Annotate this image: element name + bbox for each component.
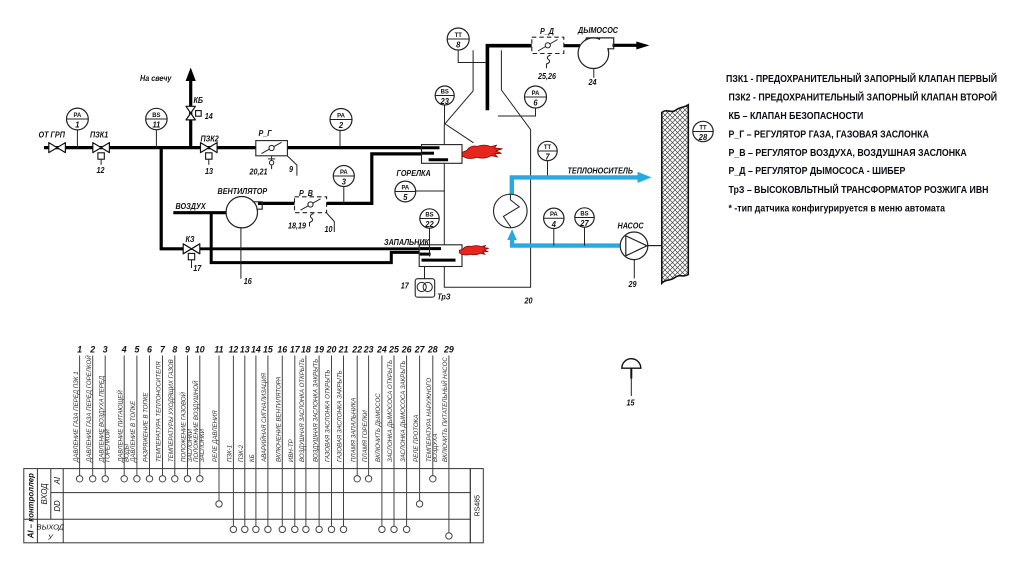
gauge BS22 — [420, 209, 439, 229]
svg-text:AI: AI — [53, 476, 62, 485]
label ПЗК1 — [90, 130, 108, 139]
heat carrier return pipe (cyan) — [507, 229, 619, 245]
signal 12 wire and terminal — [227, 345, 239, 533]
svg-text:ТрЗ – ВЫСОКОВЛЬТНЫЙ ТРАНСФОРМА: ТрЗ – ВЫСОКОВЛЬТНЫЙ ТРАНСФОРМАТОР РОЗЖИГ… — [729, 183, 989, 195]
signal 9 wire and terminal — [180, 345, 194, 482]
svg-text:15: 15 — [627, 398, 636, 407]
svg-text:ТТ: ТТ — [455, 32, 462, 39]
svg-text:РАЗРЯЖЕНИЕ В ТОПКЕ: РАЗРЯЖЕНИЕ В ТОПКЕ — [143, 391, 150, 462]
wire igniter gas line from KZ valve to igniter — [200, 247, 441, 250]
svg-text:ДАВЛЕНИЕ ГАЗА ПЕРЕД ГОРЕЛКОЙ: ДАВЛЕНИЕ ГАЗА ПЕРЕД ГОРЕЛКОЙ — [85, 355, 93, 463]
exhauster fan symbol — [578, 38, 614, 69]
wire fan outlet to air damper — [258, 202, 295, 205]
signal 3 wire and terminal — [98, 345, 111, 482]
svg-text:ВКЛЮЧЕНИЕ ВЕНТИЛЯТОРА: ВКЛЮЧЕНИЕ ВЕНТИЛЯТОРА — [276, 377, 283, 462]
svg-text:На свечу: На свечу — [140, 74, 172, 83]
node 18,19 label — [288, 221, 307, 230]
svg-text:ВОЗДУХА: ВОЗДУХА — [432, 433, 439, 462]
exhaust arrow — [636, 42, 649, 50]
svg-text:25: 25 — [388, 345, 399, 355]
svg-text:* -тип датчика конфигурируется: * -тип датчика конфигурируется в меню ав… — [729, 202, 946, 214]
svg-text:10: 10 — [195, 345, 205, 355]
signal 20 wire and terminal — [325, 345, 337, 533]
node 29 label — [628, 280, 638, 289]
svg-text:ТТ: ТТ — [544, 144, 551, 151]
label НАСОС — [618, 221, 645, 230]
svg-text:13: 13 — [205, 167, 214, 176]
flare arrow tip — [186, 68, 196, 82]
signal 6 wire and terminal — [143, 345, 153, 482]
svg-text:4: 4 — [121, 345, 127, 355]
svg-text:11: 11 — [152, 120, 160, 129]
gauge РА3 — [333, 166, 354, 187]
signal 26 wire and terminal — [400, 345, 412, 533]
burner flame — [462, 145, 502, 158]
svg-text:ПЗК1 - ПРЕДОХРАНИТЕЛЬНЫЙ ЗАПОР: ПЗК1 - ПРЕДОХРАНИТЕЛЬНЫЙ ЗАПОРНЫЙ КЛАПАН… — [726, 72, 997, 84]
leader to 9 — [288, 156, 297, 176]
node 20,21 label — [249, 167, 268, 176]
label Р_Д — [540, 27, 554, 36]
svg-text:27: 27 — [579, 219, 589, 228]
label КБ — [194, 96, 204, 105]
svg-text:ВОЗДУШНАЯ ЗАСЛОНКА ЗАКРЫТЬ: ВОЗДУШНАЯ ЗАСЛОНКА ЗАКРЫТЬ — [312, 359, 319, 462]
node 10 label — [325, 225, 334, 234]
label ВЕНТИЛЯТОР — [218, 187, 269, 196]
label ВОЗДУХ — [176, 202, 207, 211]
svg-text:РА: РА — [340, 169, 348, 176]
controller table frame — [24, 469, 471, 543]
svg-text:11: 11 — [214, 345, 223, 355]
svg-text:РА: РА — [532, 90, 540, 97]
gauge ТТ8 — [447, 28, 469, 50]
svg-text:НАСОС: НАСОС — [618, 221, 645, 230]
svg-text:AI – контроллер: AI – контроллер — [27, 473, 36, 539]
svg-text:РЕЛЕ ДАВЛЕНИЯ: РЕЛЕ ДАВЛЕНИЯ — [212, 410, 219, 462]
svg-text:ВОЗДУШНАЯ ЗАСЛОНКА ОТКРЫТЬ: ВОЗДУШНАЯ ЗАСЛОНКА ОТКРЫТЬ — [299, 358, 306, 462]
alarm bell (15) — [622, 359, 641, 396]
signal 13 wire and terminal — [238, 345, 250, 533]
wire ПЗК1 stem — [100, 159, 102, 165]
svg-text:ТЕПЛОНОСИТЕЛЬ: ТЕПЛОНОСИТЕЛЬ — [568, 166, 634, 175]
svg-text:РА: РА — [74, 112, 82, 119]
svg-text:ПЛАМЯ ГОРЕЛКИ: ПЛАМЯ ГОРЕЛКИ — [362, 410, 369, 462]
label ТрЗ — [437, 292, 450, 301]
label ОТ ГРП — [39, 130, 66, 139]
svg-text:ИВН-ТР: ИВН-ТР — [288, 438, 295, 462]
wire gas branch down to igniter valve — [161, 148, 183, 249]
signal 5 wire and terminal — [130, 345, 140, 482]
svg-text:ПЗК2: ПЗК2 — [201, 134, 220, 143]
svg-text:13: 13 — [240, 345, 250, 355]
label Р_В — [299, 189, 313, 198]
svg-text:ВХОД: ВХОД — [40, 483, 49, 505]
wire РА6 stem — [498, 108, 536, 116]
svg-text:ДАВЛЕНИЕ ГАЗА ПЕРЕД ПЗК 1: ДАВЛЕНИЕ ГАЗА ПЕРЕД ПЗК 1 — [73, 371, 80, 463]
svg-text:2: 2 — [338, 121, 344, 130]
signal 18 wire and terminal — [299, 345, 311, 533]
wire exhauster outlet — [609, 44, 637, 47]
node 17 label (TrZ) — [401, 281, 410, 290]
svg-text:9: 9 — [185, 345, 190, 355]
svg-text:20,21: 20,21 — [249, 167, 268, 176]
svg-text:ПЗК1: ПЗК1 — [90, 130, 108, 139]
signal 21 wire and terminal — [337, 345, 349, 533]
svg-text:ГОРЕЛКА: ГОРЕЛКА — [397, 169, 431, 178]
node 17 label (KZ) — [193, 264, 202, 273]
signal 7 wire and terminal — [156, 345, 166, 482]
svg-text:8: 8 — [456, 40, 461, 49]
svg-text:28: 28 — [427, 345, 438, 355]
svg-text:ДАВЛЕНИЕ В ТОПКЕ: ДАВЛЕНИЕ В ТОПКЕ — [130, 400, 137, 463]
svg-text:ВКЛЮЧИТЬ ДЫМОСОС: ВКЛЮЧИТЬ ДЫМОСОС — [375, 393, 382, 462]
pump НАСОС symbol — [620, 232, 648, 260]
svg-text:КБ – КЛАПАН БЕЗОПАСНОСТИ: КБ – КЛАПАН БЕЗОПАСНОСТИ — [729, 109, 864, 121]
wire TT8 stem — [458, 50, 486, 63]
svg-text:ГАЗОВАЯ ЗАСЛОНКА ЗАКРЫТЬ: ГАЗОВАЯ ЗАСЛОНКА ЗАКРЫТЬ — [337, 370, 344, 462]
table header DD row — [53, 500, 62, 512]
node 12 label — [97, 166, 106, 175]
svg-text:27: 27 — [414, 345, 426, 355]
svg-text:ВЫХОД: ВЫХОД — [37, 523, 65, 532]
svg-text:ЗАСЛОНКА ДЫМОСОСА ЗАКРЫТЬ: ЗАСЛОНКА ДЫМОСОСА ЗАКРЫТЬ — [400, 361, 407, 462]
wire air inlet to fan — [173, 211, 232, 214]
label ТЕПЛОНОСИТЕЛЬ — [568, 166, 634, 175]
transformer ТрЗ — [415, 267, 435, 297]
regulator Р_Г box with damper — [256, 141, 288, 156]
svg-text:ТТ: ТТ — [699, 124, 706, 131]
svg-text:1: 1 — [77, 345, 82, 355]
svg-text:4: 4 — [551, 220, 557, 229]
svg-text:ОТ ГРП: ОТ ГРП — [39, 130, 66, 139]
node 9 label — [289, 165, 294, 174]
svg-text:BS: BS — [152, 112, 160, 119]
svg-text:ЗАСЛОНКА ДЫМОСОСА ОТКРЫТЬ: ЗАСЛОНКА ДЫМОСОСА ОТКРЫТЬ — [387, 360, 394, 462]
gauge РА5 — [395, 181, 416, 202]
node 20 boiler bottom label — [524, 296, 534, 305]
svg-text:ЗАПАЛЬНИК: ЗАПАЛЬНИК — [384, 238, 430, 247]
svg-text:BS: BS — [580, 210, 588, 217]
signal 1 wire and terminal — [73, 345, 83, 482]
table header ВЫХОД У — [37, 523, 65, 542]
label Р_Г — [259, 129, 273, 138]
node 16 label — [244, 277, 253, 286]
wire ТТ7 stem — [547, 161, 549, 178]
svg-text:14: 14 — [205, 112, 214, 121]
signal 8 wire and terminal — [168, 345, 178, 482]
svg-text:20: 20 — [326, 345, 337, 355]
svg-text:24: 24 — [588, 78, 598, 87]
svg-text:3: 3 — [103, 345, 108, 355]
signal 16 wire and terminal — [276, 345, 288, 533]
gauge ТТ7 — [538, 141, 557, 161]
svg-text:ГАЗОВАЯ ЗАСЛОНКА ОТКРЫТЬ: ГАЗОВАЯ ЗАСЛОНКА ОТКРЫТЬ — [325, 370, 332, 462]
svg-text:5: 5 — [134, 345, 139, 355]
svg-text:DD: DD — [53, 500, 62, 512]
signal 14 wire and terminal — [249, 345, 261, 533]
signal 27 wire and terminal — [413, 345, 426, 508]
svg-text:19: 19 — [314, 345, 324, 355]
svg-text:ТЕМПЕРАТУРЫ УХОДЯЩИХ ГАЗОВ: ТЕМПЕРАТУРЫ УХОДЯЩИХ ГАЗОВ — [168, 359, 175, 462]
svg-text:22: 22 — [424, 220, 434, 229]
wire КЗ stem — [191, 260, 193, 268]
burner box ГОРЕЛКА — [422, 145, 463, 164]
actuator square ПЗК1 — [98, 153, 104, 159]
svg-text:ЗАСЛОНКИ: ЗАСЛОНКИ — [199, 428, 206, 462]
svg-text:14: 14 — [251, 345, 261, 355]
wire exhauster stem — [593, 69, 595, 78]
svg-text:КЗ: КЗ — [186, 235, 195, 244]
svg-text:17: 17 — [401, 281, 410, 290]
actuator square ПЗК2 — [206, 153, 212, 159]
svg-text:8: 8 — [172, 345, 177, 355]
svg-text:ВОЗДУХ: ВОЗДУХ — [176, 202, 207, 211]
igniter box ЗАПАЛЬНИК — [419, 245, 462, 267]
svg-text:Р_Д: Р_Д — [540, 27, 554, 36]
svg-text:24: 24 — [376, 345, 387, 355]
signal 22 wire and terminal — [350, 345, 362, 482]
svg-text:Р_Д – РЕГУЛЯТОР ДЫМОСОСА - ШИБ: Р_Д – РЕГУЛЯТОР ДЫМОСОСА - ШИБЕР — [729, 164, 906, 176]
actuator squiggle under Р_В — [310, 214, 314, 227]
wire РА1 stem — [76, 130, 78, 148]
svg-text:Р_Г: Р_Г — [259, 129, 273, 138]
svg-text:16: 16 — [277, 345, 287, 355]
wire pump stem — [633, 260, 635, 279]
svg-text:ВЕНТИЛЯТОР: ВЕНТИЛЯТОР — [218, 187, 269, 196]
gauge BS27 — [575, 208, 594, 228]
signal 2 wire and terminal — [85, 345, 96, 482]
signal 28 wire and terminal — [426, 345, 439, 482]
wire main gas line — [44, 146, 422, 149]
signal 24 wire and terminal — [375, 345, 387, 533]
label ДЫМОСОС — [577, 26, 618, 35]
signal 11 wire and terminal — [212, 345, 223, 508]
legend text block — [726, 72, 997, 213]
svg-text:29: 29 — [628, 280, 638, 289]
svg-text:12: 12 — [229, 345, 239, 355]
svg-text:ПЗК2 - ПРЕДОХРАНИТЕЛЬНЫЙ ЗАПОР: ПЗК2 - ПРЕДОХРАНИТЕЛЬНЫЙ ЗАПОРНЫЙ КЛАПАН… — [729, 91, 998, 103]
svg-text:ДЫМОСОС: ДЫМОСОС — [577, 26, 618, 35]
gauge РА4 — [544, 208, 564, 229]
svg-text:20: 20 — [524, 296, 534, 305]
svg-text:28: 28 — [698, 133, 708, 142]
svg-text:18,19: 18,19 — [288, 221, 307, 230]
actuator squiggle under Р_Д — [547, 55, 551, 68]
RS485 column — [470, 469, 483, 543]
wire BS23 sensor line to flame — [445, 105, 474, 143]
signal 23 wire and terminal — [362, 345, 374, 482]
svg-text:6: 6 — [147, 345, 152, 355]
svg-text:25,26: 25,26 — [537, 72, 557, 81]
boiler furnace outline — [444, 50, 530, 287]
svg-text:18: 18 — [301, 345, 311, 355]
signal 4 wire and terminal — [116, 345, 130, 482]
wire air branch down to igniter — [211, 213, 433, 263]
fan ventilator symbol — [226, 197, 262, 228]
svg-text:23: 23 — [363, 345, 374, 355]
svg-text:ВКЛЮЧИТЬ ПИТАТЕЛЬНЫЙ НАСОС: ВКЛЮЧИТЬ ПИТАТЕЛЬНЫЙ НАСОС — [441, 357, 449, 462]
svg-text:17: 17 — [290, 345, 301, 355]
svg-text:7: 7 — [545, 152, 550, 161]
wire РА5 stem — [416, 190, 445, 192]
svg-text:23: 23 — [440, 97, 450, 106]
wire pump to wall — [648, 245, 662, 247]
svg-text:12: 12 — [97, 166, 106, 175]
wire fan stem to 16 — [240, 227, 242, 278]
svg-text:3: 3 — [342, 177, 347, 186]
svg-text:26: 26 — [401, 345, 412, 355]
valve ПЗК2 — [201, 143, 218, 153]
leader to 10 — [327, 213, 335, 232]
heat carrier supply pipe (cyan) — [512, 172, 652, 196]
svg-text:ПЗК-1: ПЗК-1 — [227, 445, 234, 462]
gauge РА6 — [525, 86, 547, 108]
table header ВХОД — [40, 483, 49, 505]
svg-text:BS: BS — [425, 211, 433, 218]
svg-text:2: 2 — [89, 345, 95, 355]
node 14 label — [205, 112, 214, 121]
valve ПЗК1 — [93, 143, 110, 153]
svg-text:22: 22 — [351, 345, 362, 355]
gauge BS23 — [435, 86, 454, 106]
valve inlet from GRP — [49, 143, 66, 153]
svg-text:21: 21 — [338, 345, 349, 355]
svg-text:5: 5 — [403, 193, 408, 202]
svg-text:10: 10 — [325, 225, 334, 234]
regulator Р_В dashed box with damper — [295, 197, 327, 213]
signal 29 wire and terminal — [441, 345, 454, 540]
svg-text:ТрЗ: ТрЗ — [437, 292, 450, 301]
valve КЗ — [183, 244, 200, 254]
regulator Р_Д dashed box with damper — [532, 37, 564, 53]
signal 15 wire and terminal — [260, 345, 273, 533]
svg-text:КБ: КБ — [249, 454, 256, 462]
svg-text:ТЕМПЕРАТУРА ТЕПЛОНОСИТЕЛЯ: ТЕМПЕРАТУРА ТЕПЛОНОСИТЕЛЯ — [156, 361, 163, 462]
svg-text:6: 6 — [533, 98, 538, 107]
svg-text:RS485: RS485 — [474, 495, 481, 517]
node 15 label — [627, 398, 636, 407]
label На свечу — [140, 74, 172, 83]
gauge РА1 — [67, 108, 89, 130]
table header AI row — [53, 476, 62, 485]
wire РА4 stem — [553, 228, 555, 245]
svg-text:РЕЛЕ ПРОТОКА: РЕЛЕ ПРОТОКА — [413, 415, 420, 462]
svg-text:15: 15 — [263, 345, 273, 355]
svg-text:АВАРИЙНАЯ СИГНАЛИЗАЦИЯ: АВАРИЙНАЯ СИГНАЛИЗАЦИЯ — [260, 372, 268, 463]
svg-text:РА: РА — [337, 112, 345, 119]
wire BS11 stem — [155, 130, 157, 148]
wire РА3 stem — [343, 187, 345, 204]
igniter flame — [459, 246, 489, 255]
signal 10 wire and terminal — [192, 345, 206, 482]
svg-text:BS: BS — [441, 88, 449, 95]
wire flare riser (to vent) — [189, 80, 192, 148]
svg-text:Р_Г – РЕГУЛЯТОР ГАЗА, ГАЗОВАЯ: Р_Г – РЕГУЛЯТОР ГАЗА, ГАЗОВАЯ ЗАСЛОНКА — [729, 128, 930, 140]
svg-text:РА: РА — [550, 211, 558, 218]
flue duct thick line — [487, 46, 531, 111]
gauge BS11 — [146, 108, 167, 129]
signal 19 wire and terminal — [312, 345, 324, 533]
svg-text:ПЛАМЯ ЗАПАЛЬНИКА: ПЛАМЯ ЗАПАЛЬНИКА — [350, 398, 357, 462]
svg-text:РА: РА — [401, 184, 409, 191]
label ПЗК2 — [201, 134, 220, 143]
svg-text:1: 1 — [75, 120, 80, 129]
valve КБ (vertical) — [186, 106, 201, 120]
svg-text:16: 16 — [244, 277, 253, 286]
svg-text:17: 17 — [193, 264, 202, 273]
heat exchanger — [494, 194, 528, 228]
node 25,26 label — [537, 72, 557, 81]
wire BS22 stem — [429, 228, 431, 257]
svg-text:КБ: КБ — [194, 96, 204, 105]
wire air damper to burner — [327, 154, 437, 204]
wall (hatched) — [662, 105, 689, 283]
signal 17 wire and terminal — [288, 345, 301, 533]
table header AI controller — [27, 473, 36, 539]
actuator square КЗ — [188, 253, 194, 259]
wire ПЗК2 stem — [208, 159, 210, 165]
node 24 label — [588, 78, 598, 87]
label ЗАПАЛЬНИК — [384, 238, 430, 247]
label ГОРЕЛКА — [397, 169, 431, 178]
svg-text:ПЗК-2: ПЗК-2 — [238, 444, 245, 462]
gauge РА2 — [330, 109, 352, 131]
wire BS27 stem — [584, 227, 586, 245]
gauge ТТ28 — [693, 121, 713, 142]
actuator stem under Р_Г — [268, 156, 275, 169]
wire РА2 stem — [339, 131, 341, 148]
svg-text:Р_В – РЕГУЛЯТОР ВОЗДУХА, ВОЗДУ: Р_В – РЕГУЛЯТОР ВОЗДУХА, ВОЗДУШНАЯ ЗАСЛО… — [729, 146, 967, 158]
svg-text:29: 29 — [443, 345, 454, 355]
wire flue to damper Р_Д — [564, 44, 580, 47]
node 13 label — [205, 167, 214, 176]
svg-text:ГОРЕЛКОЙ: ГОРЕЛКОЙ — [104, 429, 112, 462]
label КЗ — [186, 235, 195, 244]
signal 25 wire and terminal — [387, 345, 399, 533]
